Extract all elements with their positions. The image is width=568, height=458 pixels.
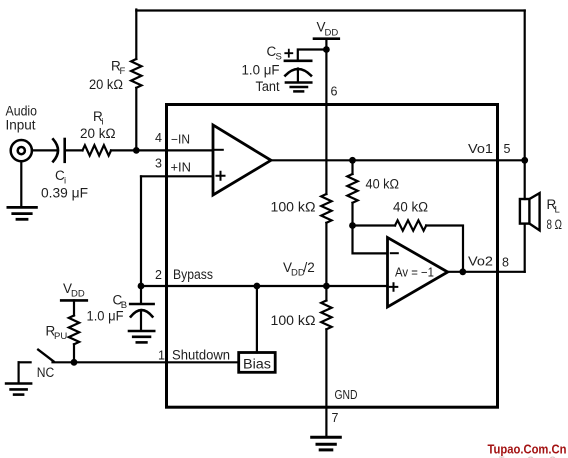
node bias junction dot <box>254 283 261 290</box>
resistor RF <box>131 59 141 88</box>
value 100 kOhm (upper) <box>271 200 316 215</box>
svg-text:/2: /2 <box>304 260 315 275</box>
svg-text:1.0 μF: 1.0 μF <box>242 63 280 78</box>
label Ci <box>55 168 66 187</box>
wire CS to ground <box>297 69 299 82</box>
svg-text:GND: GND <box>335 388 358 402</box>
value 1.0 uF (CB) <box>87 309 124 324</box>
wire 40k top stub <box>351 160 353 174</box>
wire speaker bottom to Vo2 row <box>524 224 526 272</box>
wire A2 minus branch <box>353 226 388 254</box>
value 40 kOhm (horizontal) <box>393 200 428 215</box>
op-amp A1 minus input symbol <box>215 149 223 151</box>
connector J1 audio input jack <box>11 140 32 161</box>
wire RF column top <box>135 10 137 60</box>
label NC <box>37 365 55 380</box>
wire CS branch <box>298 50 327 60</box>
pin 1 label <box>158 349 165 363</box>
switch NC lever <box>38 350 53 362</box>
power VDD symbol (RPU) <box>61 299 87 302</box>
node input junction dot <box>133 147 140 154</box>
label RF <box>111 59 126 78</box>
node divider mid junction dot <box>323 283 330 290</box>
wire right rail down to speaker <box>524 11 526 200</box>
label CB <box>113 293 128 312</box>
wire feedback down to Vo2 <box>426 226 463 272</box>
wire Ri to -IN of op-amp <box>111 149 213 151</box>
svg-text:1.0 μF: 1.0 μF <box>87 309 124 324</box>
capacitor CB <box>130 304 153 317</box>
svg-text:S: S <box>276 52 282 63</box>
speaker RL <box>520 193 540 230</box>
ground (audio input) <box>8 207 37 219</box>
label Vo1 <box>468 142 493 156</box>
wire shutdown row <box>53 361 239 363</box>
value 20 kOhm (Ri) <box>80 126 116 141</box>
ground (CS) <box>286 83 311 92</box>
svg-text:40 kΩ: 40 kΩ <box>366 177 400 192</box>
node Vo1 40k junction dot <box>349 157 356 164</box>
pin -IN label <box>171 133 190 147</box>
pin +IN label <box>171 160 192 174</box>
resistor Ri <box>83 145 112 155</box>
svg-text:8: 8 <box>502 255 509 269</box>
svg-text:Audio: Audio <box>6 104 38 119</box>
value 0.39 uF <box>41 186 88 201</box>
svg-text:Vo1: Vo1 <box>468 142 493 156</box>
svg-text:100 kΩ: 100 kΩ <box>271 313 316 328</box>
resistor 100k lower <box>321 301 331 330</box>
wire 40k bottom to feedback node <box>351 203 353 226</box>
svg-text:6: 6 <box>331 85 338 99</box>
node shutdown RPU junction dot <box>71 359 78 366</box>
pin 7 label <box>332 411 339 425</box>
svg-text:20 kΩ: 20 kΩ <box>89 77 123 92</box>
svg-text:DD: DD <box>325 28 339 39</box>
label Audio Input <box>6 104 38 133</box>
polarity plus (CS) <box>285 50 292 57</box>
label VDD top <box>317 20 339 39</box>
wire +IN row <box>141 175 213 177</box>
resistor 100k upper <box>321 194 331 223</box>
svg-text:5: 5 <box>504 142 511 156</box>
wire divider mid to 100k lower to GND rail <box>325 286 327 437</box>
svg-text:L: L <box>555 205 560 216</box>
label CS <box>267 44 282 63</box>
wire Vo2 row <box>448 271 525 273</box>
capacitor Ci <box>53 139 64 162</box>
wire RF column bottom to input node <box>135 88 137 151</box>
pin 4 label <box>155 131 162 145</box>
value 8 Ohm <box>547 217 563 232</box>
resistor 40k horizontal <box>395 220 426 230</box>
svg-text:PU: PU <box>54 331 67 342</box>
op-amp A2 plus input symbol <box>390 283 398 291</box>
watermark Tupao.Com.Cn <box>488 442 567 456</box>
op-amp A2 <box>388 238 448 308</box>
ground (NC switch) <box>6 384 31 395</box>
node Vo2 junction dot <box>459 268 466 275</box>
wire jack to ground <box>20 161 22 206</box>
watermark second line faint <box>499 455 561 458</box>
label Vo2 <box>468 254 493 268</box>
pin Bypass label <box>173 267 213 282</box>
wire switch to ground <box>18 362 20 382</box>
wire VDD to RPU <box>73 300 75 315</box>
resistor RPU <box>69 316 79 345</box>
svg-text:Vo2: Vo2 <box>468 254 493 268</box>
wire bias to VDD/2 row <box>256 286 258 353</box>
svg-text:+IN: +IN <box>171 160 192 174</box>
value 100 kOhm (lower) <box>271 313 316 328</box>
pin 2 label <box>155 268 162 282</box>
label Ri <box>93 109 104 128</box>
svg-text:DD: DD <box>71 289 85 300</box>
capacitor CS <box>285 61 311 76</box>
label VDD/2 <box>283 260 315 279</box>
svg-text:8 Ω: 8 Ω <box>547 217 563 232</box>
svg-text:0.39 μF: 0.39 μF <box>41 186 88 201</box>
wire Vo1 row op-amp to right rail <box>271 159 525 161</box>
op-amp A2 minus input symbol <box>391 252 398 254</box>
svg-text:3: 3 <box>155 156 162 170</box>
pin 5 label <box>504 142 511 156</box>
svg-text:40 kΩ: 40 kΩ <box>393 200 428 215</box>
svg-text:Tant: Tant <box>256 79 280 94</box>
value 1.0 uF (CS) <box>242 63 280 78</box>
svg-text:Av = −1: Av = −1 <box>395 266 434 280</box>
svg-text:1: 1 <box>158 349 165 363</box>
label VDD (RPU) <box>63 281 85 300</box>
node Vo1 right rail junction dot <box>521 157 528 164</box>
svg-text:100 kΩ: 100 kΩ <box>271 200 316 215</box>
ground (CB) <box>129 331 154 342</box>
wire jack to Ci <box>32 149 57 151</box>
IC box U1 <box>167 105 498 408</box>
svg-text:Bypass: Bypass <box>173 267 213 282</box>
svg-text:2: 2 <box>155 268 162 282</box>
wire CB to ground <box>140 310 142 330</box>
label GND <box>335 388 358 402</box>
svg-text:Bias: Bias <box>243 357 271 372</box>
wire 100k upper to VDD/2 node <box>325 223 327 286</box>
op-amp A1 <box>213 125 271 195</box>
svg-text:Input: Input <box>6 118 36 133</box>
wire feedback row to 40k horizontal <box>353 224 396 226</box>
pin 3 label <box>155 156 162 170</box>
svg-text:F: F <box>120 66 126 77</box>
node bypass CB junction dot <box>138 283 145 290</box>
svg-text:NC: NC <box>37 365 55 380</box>
wire switch left contact <box>19 361 31 363</box>
wire VDD to pin 6 and divider column <box>325 39 327 194</box>
wire +IN down to bypass node <box>140 176 142 286</box>
pin 6 label <box>331 85 338 99</box>
ground (pin 7) <box>312 437 341 450</box>
node feedback junction dot <box>349 222 356 229</box>
svg-text:−IN: −IN <box>171 133 190 147</box>
label Av = -1 <box>395 266 434 280</box>
svg-text:7: 7 <box>332 411 339 425</box>
resistor 40k vertical <box>347 174 357 203</box>
node VDD / CS junction dot <box>323 46 330 53</box>
svg-text:Shutdown: Shutdown <box>172 348 230 363</box>
power VDD top symbol <box>314 37 339 40</box>
label RL <box>547 197 560 216</box>
svg-text:20 kΩ: 20 kΩ <box>80 126 116 141</box>
wire Ci to Ri <box>66 149 83 151</box>
value 20 kOhm (RF) <box>89 77 123 92</box>
wire bypass node to CB <box>140 286 142 304</box>
svg-text:4: 4 <box>155 131 162 145</box>
pin Shutdown label <box>172 348 230 363</box>
label RPU <box>46 324 68 343</box>
pin 8 label <box>502 255 509 269</box>
value 40 kOhm (vertical) <box>366 177 400 192</box>
bias block <box>239 353 276 373</box>
op-amp A1 plus input symbol <box>217 172 225 180</box>
label Tant <box>256 79 280 94</box>
wire top feedback from RF to right rail <box>136 9 524 11</box>
wire bypass VDD/2 row <box>141 285 388 287</box>
label Bias <box>243 357 271 372</box>
wire RPU to shutdown node <box>73 344 75 362</box>
